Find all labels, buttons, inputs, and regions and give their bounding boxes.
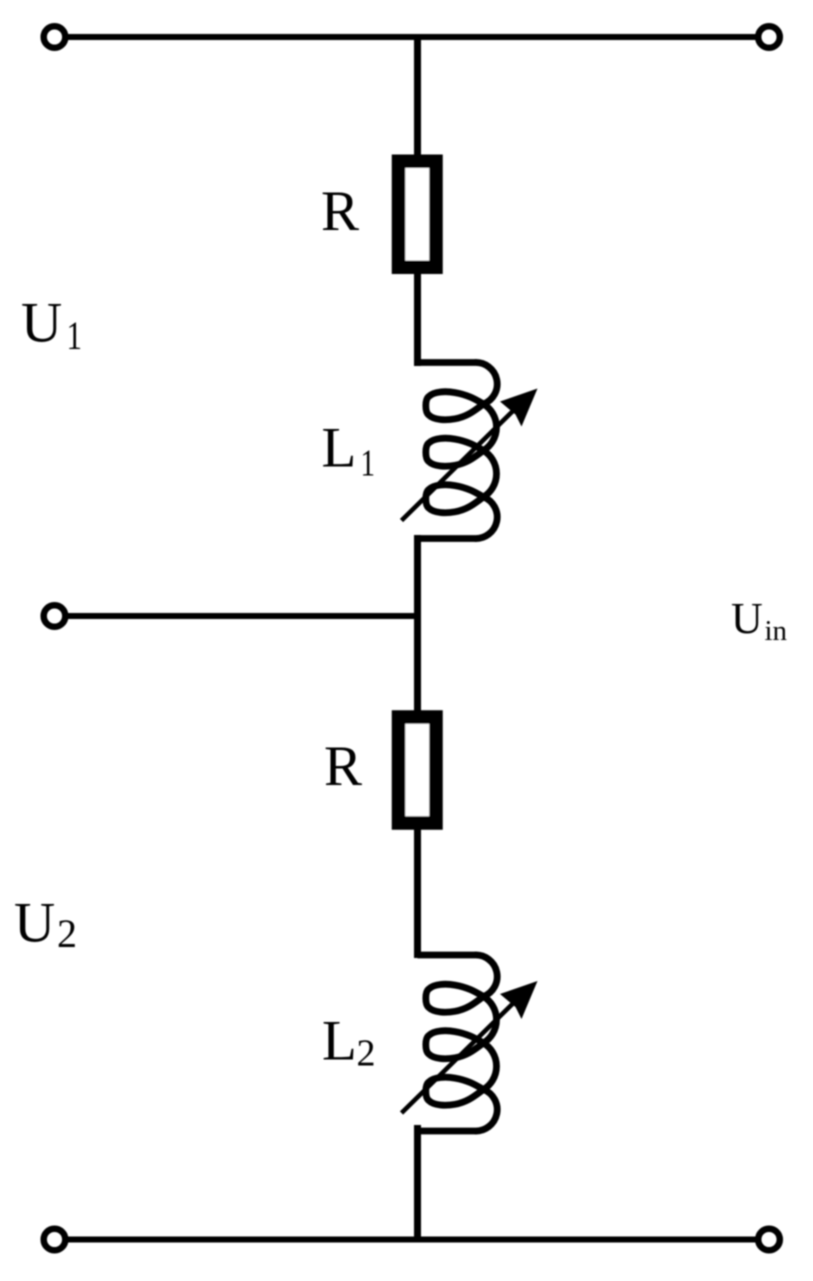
svg-text:2: 2 [57, 911, 77, 956]
svg-text:R: R [324, 735, 362, 798]
svg-text:1: 1 [67, 313, 83, 358]
svg-text:L: L [322, 1010, 357, 1073]
svg-text:R: R [321, 180, 359, 243]
svg-text:1: 1 [361, 442, 376, 484]
svg-text:U: U [14, 892, 55, 955]
svg-text:U: U [731, 594, 763, 643]
svg-text:in: in [765, 615, 788, 647]
svg-text:U: U [21, 292, 62, 355]
svg-text:2: 2 [357, 1033, 376, 1075]
svg-text:L: L [322, 417, 357, 480]
